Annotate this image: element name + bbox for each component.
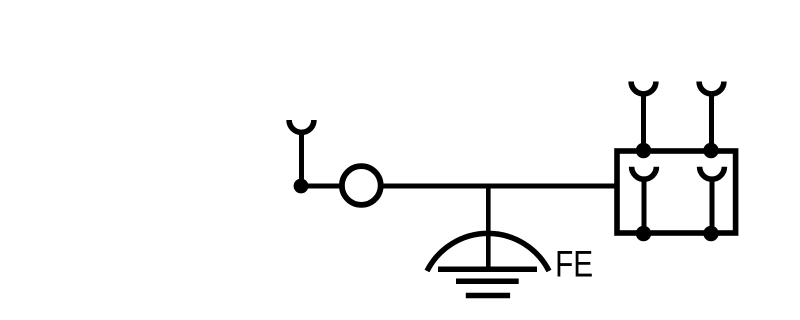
junction node A	[294, 179, 309, 194]
functional earth symbol (earth bars)	[438, 269, 537, 295]
socket contact top-left (above box)	[631, 82, 656, 152]
socket contact X1 (left)	[289, 120, 314, 186]
svg-text:FE: FE	[555, 244, 593, 285]
junction dot top-left on box edge	[636, 143, 651, 158]
wire: circle terminal to terminal box	[381, 184, 617, 189]
functional earth dome arc	[427, 233, 549, 271]
wire: earth drop from main wire	[486, 186, 491, 269]
socket contact inner-right (inside box)	[700, 167, 725, 233]
junction dot bottom-right on box edge	[703, 226, 718, 241]
junction dot top-right on box edge	[703, 143, 718, 158]
terminal block box	[617, 151, 736, 233]
wire: node A to circle terminal	[301, 184, 343, 189]
junction dot bottom-left on box edge	[636, 226, 651, 241]
socket contact top-right (above box)	[699, 82, 724, 152]
socket contact inner-left (inside box)	[632, 167, 657, 233]
circle terminal point P1	[342, 166, 381, 205]
